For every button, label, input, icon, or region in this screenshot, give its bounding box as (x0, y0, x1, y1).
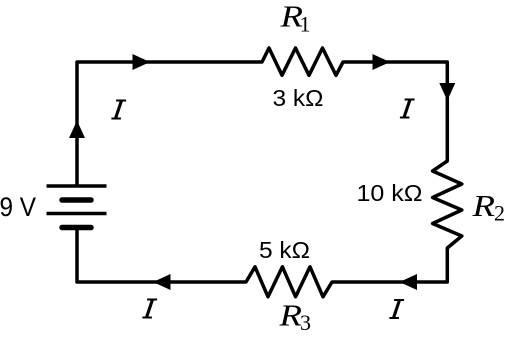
svg-text:3: 3 (300, 310, 311, 335)
svg-text:5 kΩ: 5 kΩ (259, 237, 310, 263)
svg-text:9 V: 9 V (0, 192, 36, 222)
svg-text:R: R (471, 188, 495, 223)
svg-text:2: 2 (494, 201, 505, 226)
svg-text:R: R (278, 298, 302, 333)
svg-text:10 kΩ: 10 kΩ (357, 180, 423, 206)
svg-text:3 kΩ: 3 kΩ (273, 85, 324, 111)
svg-text:1: 1 (300, 12, 311, 37)
